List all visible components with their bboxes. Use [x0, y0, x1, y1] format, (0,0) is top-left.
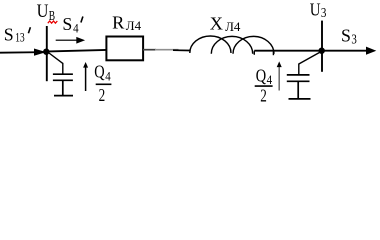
svg-text:4: 4	[73, 21, 79, 36]
svg-text:Л4: Л4	[225, 19, 241, 34]
tick at start of right wire	[253, 51, 255, 55]
wire: vertical drop to top plate of C-left	[62, 63, 64, 75]
prime mark of S13'	[28, 27, 30, 33]
wire: vertical drop to top plate of C-right	[298, 64, 300, 76]
wire: junction to resistor	[44, 50, 107, 52]
svg-text:13: 13	[15, 31, 25, 44]
capacitor Q4/2 left: bottom lead	[62, 81, 64, 96]
svg-text:Л4: Л4	[126, 18, 142, 33]
tick where arc 3 crosses right wire	[272, 51, 274, 56]
annotation arrow up (left charge flow)	[85, 67, 87, 92]
node U3 vertical stub	[321, 21, 323, 72]
value label Q4/2 left: fraction bar	[96, 83, 112, 85]
junction dot at left node	[43, 49, 49, 55]
resistor RL4 body	[106, 37, 143, 61]
svg-text:3: 3	[321, 5, 327, 21]
svg-text:S: S	[341, 26, 351, 46]
svg-text:S: S	[62, 14, 72, 34]
wire: main horizontal wire right segment (inductor to output)	[254, 50, 372, 52]
svg-text:R: R	[112, 13, 125, 33]
inductor XL4: arc 3	[233, 36, 274, 53]
inductor XL4: arc 1	[190, 36, 231, 53]
svg-text:U: U	[37, 0, 49, 21]
svg-text:4: 4	[105, 69, 111, 84]
svg-text:4: 4	[267, 72, 273, 87]
wire: gray link from resistor to inductor (dark part)	[143, 49, 156, 51]
svg-text:Q: Q	[256, 65, 267, 86]
arrowhead of S3 at right end of wire	[366, 47, 376, 55]
annotation arrow for S4'	[56, 39, 78, 41]
junction dot at right node	[319, 48, 325, 54]
svg-text:U: U	[310, 0, 321, 20]
capacitor Q4/2 right: bottom lead	[297, 82, 299, 99]
annotation arrow up (right charge flow)	[278, 67, 280, 91]
svg-text:Х: Х	[210, 13, 223, 33]
wire: diagonal from right junction toward capacitor C-right	[299, 52, 321, 64]
svg-text:3: 3	[351, 31, 356, 46]
capacitor Q4/2 left: top plate	[53, 73, 73, 75]
svg-text:Q: Q	[94, 61, 105, 82]
capacitor Q4/2 right: top plate	[287, 74, 310, 76]
ground bar below right capacitor	[289, 98, 311, 100]
svg-text:2: 2	[260, 87, 267, 106]
wire: diagonal from left junction toward capacitor C-left	[47, 52, 63, 64]
capacitor Q4/2 left: bottom plate	[53, 79, 73, 81]
node UB vertical stub	[46, 26, 48, 81]
red spellcheck squiggle under B subscript	[48, 21, 58, 23]
wire: gray link from resistor to inductor (light part)	[155, 49, 179, 51]
value label Q4/2 right: fraction bar	[255, 85, 273, 87]
wire: main horizontal input wire (left edge to junction)	[0, 51, 45, 54]
prime mark of S4'	[81, 17, 83, 23]
ground bar below left capacitor	[54, 95, 73, 97]
arrowhead of S13' on input wire	[34, 49, 46, 56]
svg-text:2: 2	[99, 86, 106, 105]
inductor XL4: arc 2	[211, 36, 252, 53]
wire: black stub before inductor	[173, 49, 190, 51]
svg-text:S: S	[4, 25, 14, 45]
capacitor Q4/2 right: bottom plate	[287, 80, 310, 82]
